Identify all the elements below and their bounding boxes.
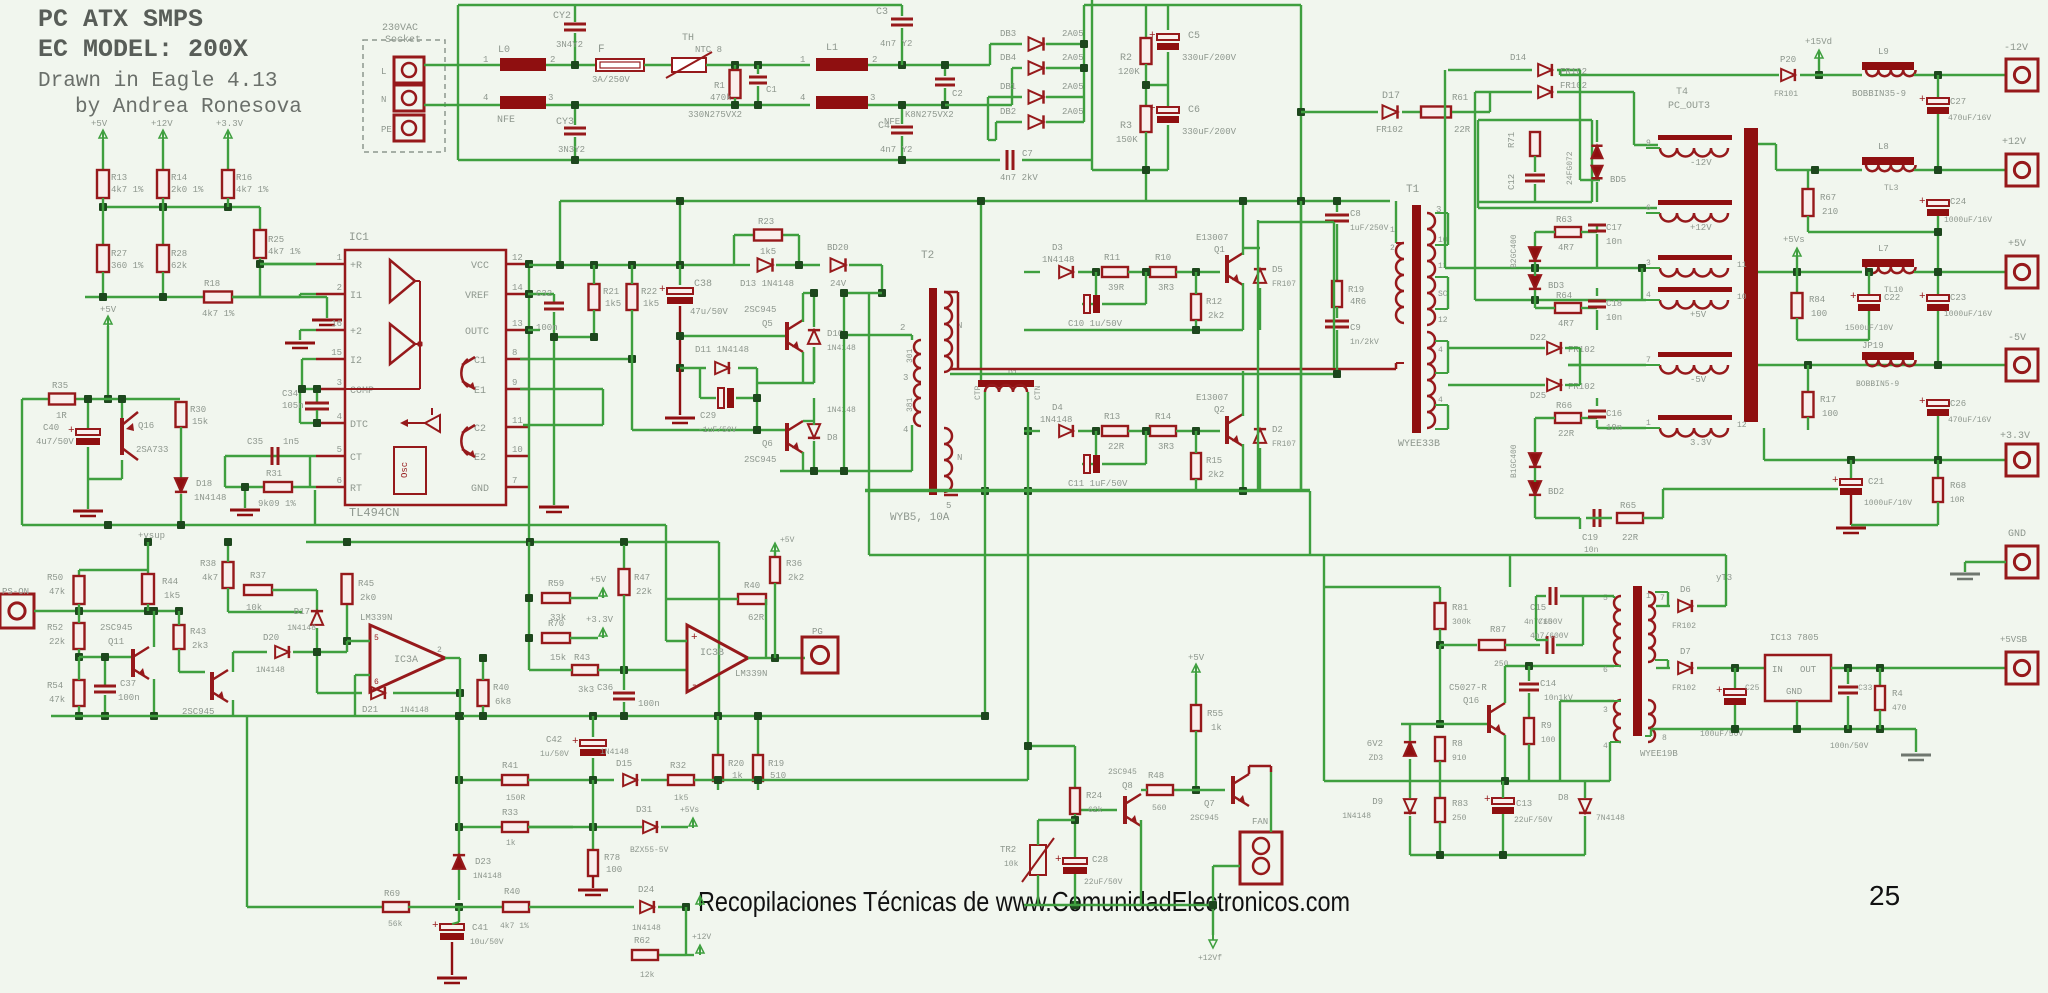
svg-text:R66: R66 bbox=[1556, 401, 1572, 411]
svg-text:Osc: Osc bbox=[400, 462, 410, 478]
svg-text:+R: +R bbox=[350, 261, 362, 272]
svg-text:FR107: FR107 bbox=[1272, 440, 1296, 449]
svg-text:CY2: CY2 bbox=[553, 11, 571, 22]
svg-text:C1: C1 bbox=[474, 356, 486, 367]
svg-text:10: 10 bbox=[1438, 236, 1448, 245]
svg-text:1N4148: 1N4148 bbox=[256, 666, 285, 675]
svg-text:N: N bbox=[381, 95, 386, 105]
svg-text:C13: C13 bbox=[1516, 799, 1532, 809]
svg-text:C15: C15 bbox=[1530, 603, 1546, 613]
svg-text:1N4148: 1N4148 bbox=[600, 748, 629, 757]
svg-text:D14: D14 bbox=[1510, 53, 1526, 63]
svg-text:Q16: Q16 bbox=[1463, 696, 1479, 706]
svg-text:FAN: FAN bbox=[1252, 817, 1268, 827]
svg-text:C33: C33 bbox=[1858, 684, 1873, 693]
svg-text:R63: R63 bbox=[1556, 215, 1572, 225]
svg-text:2A05: 2A05 bbox=[1062, 107, 1084, 117]
svg-text:11: 11 bbox=[1438, 262, 1448, 271]
svg-text:R23: R23 bbox=[758, 217, 774, 227]
svg-text:4n7 Y2: 4n7 Y2 bbox=[880, 39, 912, 49]
svg-text:4: 4 bbox=[337, 412, 342, 422]
svg-text:13: 13 bbox=[512, 319, 523, 329]
svg-text:-5V: -5V bbox=[2008, 333, 2026, 344]
svg-text:C17: C17 bbox=[1606, 223, 1622, 233]
svg-text:8: 8 bbox=[512, 348, 517, 358]
svg-text:COMP: COMP bbox=[350, 386, 374, 397]
svg-text:NFE: NFE bbox=[497, 115, 515, 126]
svg-text:+12V: +12V bbox=[151, 119, 173, 129]
svg-text:R27: R27 bbox=[111, 249, 127, 259]
svg-text:6k8: 6k8 bbox=[495, 697, 511, 707]
svg-text:330N275VX2: 330N275VX2 bbox=[688, 110, 742, 120]
svg-text:+5V: +5V bbox=[91, 119, 108, 129]
svg-text:22R: 22R bbox=[1558, 429, 1575, 439]
svg-text:Q5: Q5 bbox=[762, 319, 773, 329]
svg-text:C15: C15 bbox=[1538, 618, 1553, 627]
svg-text:100n: 100n bbox=[536, 323, 558, 333]
svg-text:470: 470 bbox=[1892, 704, 1907, 713]
svg-text:JP19: JP19 bbox=[1862, 341, 1884, 351]
svg-text:+: + bbox=[1484, 794, 1491, 806]
svg-text:24FG072: 24FG072 bbox=[1566, 151, 1575, 185]
svg-text:R19: R19 bbox=[1348, 285, 1364, 295]
svg-text:+3.3V: +3.3V bbox=[2000, 431, 2030, 442]
svg-text:L9: L9 bbox=[1878, 47, 1889, 57]
svg-text:2SC945: 2SC945 bbox=[100, 623, 132, 633]
svg-text:2SC945: 2SC945 bbox=[1108, 768, 1137, 777]
svg-text:R10: R10 bbox=[1155, 253, 1171, 263]
svg-text:7: 7 bbox=[512, 476, 517, 486]
svg-text:+: + bbox=[691, 632, 698, 644]
svg-text:3N4Y2: 3N4Y2 bbox=[556, 40, 583, 50]
svg-text:4: 4 bbox=[483, 93, 488, 103]
svg-text:12: 12 bbox=[512, 253, 523, 263]
svg-text:C36: C36 bbox=[597, 683, 613, 693]
svg-text:R47: R47 bbox=[634, 573, 650, 583]
svg-text:BD3: BD3 bbox=[1548, 281, 1564, 291]
svg-text:C5: C5 bbox=[1188, 31, 1200, 42]
svg-text:R14: R14 bbox=[1155, 412, 1171, 422]
svg-text:CTP: CTP bbox=[974, 385, 983, 400]
svg-text:+: + bbox=[659, 284, 666, 296]
svg-text:C12: C12 bbox=[1507, 174, 1517, 190]
svg-text:47k: 47k bbox=[49, 695, 65, 705]
svg-text:4: 4 bbox=[800, 93, 805, 103]
svg-text:22k: 22k bbox=[49, 637, 65, 647]
svg-text:+3.3V: +3.3V bbox=[216, 119, 244, 129]
svg-text:3: 3 bbox=[1646, 259, 1651, 268]
svg-text:R35: R35 bbox=[52, 381, 68, 391]
svg-text:OUT: OUT bbox=[1800, 665, 1817, 675]
svg-text:1k5: 1k5 bbox=[164, 591, 180, 601]
svg-text:+5Vs: +5Vs bbox=[680, 806, 699, 815]
svg-text:L7: L7 bbox=[1878, 244, 1889, 254]
svg-text:381: 381 bbox=[906, 397, 915, 412]
svg-text:N: N bbox=[957, 453, 962, 463]
svg-text:C10 1u/50V: C10 1u/50V bbox=[1068, 319, 1123, 329]
svg-text:4n7 2kV: 4n7 2kV bbox=[1000, 173, 1038, 183]
svg-text:100: 100 bbox=[1541, 736, 1556, 745]
svg-text:L8: L8 bbox=[1878, 142, 1889, 152]
svg-text:5: 5 bbox=[337, 445, 342, 455]
svg-text:R16: R16 bbox=[236, 173, 252, 183]
svg-text:I1: I1 bbox=[350, 291, 362, 302]
svg-text:330uF/200V: 330uF/200V bbox=[1182, 127, 1237, 137]
svg-text:4u7/50V: 4u7/50V bbox=[36, 437, 74, 447]
svg-text:1N4148: 1N4148 bbox=[473, 872, 502, 881]
svg-text:CY3: CY3 bbox=[556, 117, 574, 128]
svg-text:R59: R59 bbox=[548, 579, 564, 589]
svg-text:12: 12 bbox=[1737, 421, 1747, 430]
svg-text:R18: R18 bbox=[204, 279, 220, 289]
svg-text:6: 6 bbox=[337, 476, 342, 486]
svg-text:R22: R22 bbox=[641, 287, 657, 297]
svg-text:1R: 1R bbox=[56, 411, 67, 421]
svg-text:FR102: FR102 bbox=[1568, 345, 1595, 355]
svg-text:3: 3 bbox=[548, 93, 553, 103]
svg-text:C19: C19 bbox=[1582, 533, 1598, 543]
svg-text:FR101: FR101 bbox=[1774, 90, 1798, 99]
svg-text:62k: 62k bbox=[171, 261, 187, 271]
svg-text:C3: C3 bbox=[876, 7, 888, 18]
svg-text:+5V: +5V bbox=[780, 536, 795, 545]
svg-text:L: L bbox=[381, 67, 386, 77]
svg-text:15: 15 bbox=[331, 348, 342, 358]
svg-text:R44: R44 bbox=[162, 577, 178, 587]
svg-text:R78: R78 bbox=[604, 853, 620, 863]
svg-text:+5V: +5V bbox=[590, 575, 607, 585]
svg-text:DB3: DB3 bbox=[1000, 29, 1016, 39]
svg-text:2: 2 bbox=[437, 646, 442, 655]
svg-text:4k7 1%: 4k7 1% bbox=[268, 247, 301, 257]
svg-text:2k2: 2k2 bbox=[788, 573, 804, 583]
svg-text:4: 4 bbox=[1438, 396, 1443, 405]
svg-text:4: 4 bbox=[903, 425, 908, 435]
svg-text:5: 5 bbox=[946, 501, 951, 511]
svg-text:1: 1 bbox=[800, 55, 805, 65]
svg-text:C8: C8 bbox=[1350, 209, 1361, 219]
svg-text:R40: R40 bbox=[744, 581, 760, 591]
svg-text:+: + bbox=[68, 425, 75, 437]
svg-text:10n: 10n bbox=[1606, 237, 1622, 247]
svg-text:100: 100 bbox=[1822, 409, 1838, 419]
svg-text:210: 210 bbox=[1822, 207, 1838, 217]
svg-text:R14: R14 bbox=[171, 173, 187, 183]
svg-text:C35: C35 bbox=[247, 437, 263, 447]
svg-text:3: 3 bbox=[1603, 706, 1608, 715]
svg-text:4k7 1%: 4k7 1% bbox=[111, 185, 144, 195]
svg-text:+: + bbox=[572, 736, 579, 748]
svg-text:1500uF/10V: 1500uF/10V bbox=[1845, 324, 1893, 333]
svg-text:R12: R12 bbox=[1206, 297, 1222, 307]
svg-text:+: + bbox=[1055, 854, 1062, 866]
svg-text:100n: 100n bbox=[638, 699, 660, 709]
svg-text:-12V: -12V bbox=[1690, 158, 1712, 168]
svg-text:Q16: Q16 bbox=[138, 421, 154, 431]
svg-text:8: 8 bbox=[1662, 734, 1667, 743]
svg-text:WYEE19B: WYEE19B bbox=[1640, 749, 1678, 759]
svg-text:LM339N: LM339N bbox=[360, 613, 392, 623]
svg-text:16: 16 bbox=[331, 319, 342, 329]
svg-text:R19: R19 bbox=[768, 759, 784, 769]
svg-text:2k3: 2k3 bbox=[192, 641, 208, 651]
svg-text:CTN: CTN bbox=[1034, 385, 1043, 400]
svg-text:P20: P20 bbox=[1780, 55, 1796, 65]
svg-text:150K: 150K bbox=[1116, 135, 1138, 145]
svg-text:FR102: FR102 bbox=[1672, 622, 1696, 631]
svg-text:R28: R28 bbox=[171, 249, 187, 259]
svg-text:10: 10 bbox=[1737, 293, 1747, 302]
svg-text:2A05: 2A05 bbox=[1062, 82, 1084, 92]
svg-text:+12V: +12V bbox=[692, 933, 711, 942]
svg-text:+5V: +5V bbox=[100, 305, 117, 315]
svg-text:R30: R30 bbox=[190, 405, 206, 415]
svg-text:22R: 22R bbox=[1622, 533, 1639, 543]
svg-text:2k2: 2k2 bbox=[1208, 470, 1224, 480]
svg-text:1N4148: 1N4148 bbox=[1040, 415, 1072, 425]
svg-text:C32: C32 bbox=[536, 289, 552, 299]
svg-text:4n7 Y2: 4n7 Y2 bbox=[880, 145, 912, 155]
svg-text:R54: R54 bbox=[47, 681, 63, 691]
svg-text:4k7: 4k7 bbox=[202, 573, 218, 583]
svg-text:9: 9 bbox=[1646, 139, 1651, 148]
svg-text:DB1: DB1 bbox=[1000, 82, 1016, 92]
svg-text:D18: D18 bbox=[196, 479, 212, 489]
svg-text:C25: C25 bbox=[1745, 684, 1760, 693]
svg-text:3: 3 bbox=[903, 373, 908, 383]
svg-text:R15: R15 bbox=[1206, 456, 1222, 466]
svg-text:L1: L1 bbox=[826, 43, 838, 54]
svg-text:C2: C2 bbox=[952, 89, 963, 99]
svg-text:C41: C41 bbox=[472, 923, 488, 933]
svg-text:+3.3V: +3.3V bbox=[586, 615, 614, 625]
svg-text:R9: R9 bbox=[1541, 721, 1552, 731]
svg-text:100n/50V: 100n/50V bbox=[1830, 742, 1869, 751]
svg-text:C1: C1 bbox=[766, 85, 777, 95]
svg-text:2: 2 bbox=[872, 55, 877, 65]
svg-text:6: 6 bbox=[1603, 666, 1608, 675]
svg-text:10n: 10n bbox=[1584, 546, 1599, 555]
svg-text:TL3: TL3 bbox=[1884, 184, 1899, 193]
svg-text:E13007: E13007 bbox=[1196, 393, 1228, 403]
svg-text:24V: 24V bbox=[830, 279, 847, 289]
svg-text:22uF/50V: 22uF/50V bbox=[1084, 878, 1123, 887]
svg-text:62R: 62R bbox=[748, 613, 765, 623]
svg-text:R69: R69 bbox=[384, 889, 400, 899]
svg-text:LM339N: LM339N bbox=[735, 669, 767, 679]
svg-text:PC_OUT3: PC_OUT3 bbox=[1668, 101, 1710, 112]
svg-text:+: + bbox=[1149, 103, 1156, 115]
svg-text:2k2: 2k2 bbox=[1208, 311, 1224, 321]
svg-text:910: 910 bbox=[1452, 754, 1467, 763]
svg-text:1N4148: 1N4148 bbox=[287, 624, 316, 633]
svg-text:4R7: 4R7 bbox=[1558, 243, 1574, 253]
svg-text:14: 14 bbox=[512, 283, 523, 293]
svg-text:T1: T1 bbox=[1406, 184, 1420, 196]
svg-text:-: - bbox=[691, 680, 698, 692]
svg-text:yT3: yT3 bbox=[1716, 573, 1732, 583]
svg-text:C27: C27 bbox=[1950, 97, 1966, 107]
svg-text:10n: 10n bbox=[1606, 313, 1622, 323]
svg-text:2: 2 bbox=[900, 323, 905, 333]
svg-text:R70: R70 bbox=[548, 619, 564, 629]
svg-text:R38: R38 bbox=[200, 559, 216, 569]
svg-text:6V2: 6V2 bbox=[1367, 739, 1383, 749]
svg-text:D17: D17 bbox=[294, 607, 310, 617]
svg-text:1: 1 bbox=[1646, 419, 1651, 428]
svg-text:1k5: 1k5 bbox=[760, 247, 776, 257]
svg-text:TH: TH bbox=[682, 33, 694, 44]
svg-text:I2: I2 bbox=[350, 356, 362, 367]
svg-text:R25: R25 bbox=[268, 235, 284, 245]
svg-text:C2: C2 bbox=[474, 424, 486, 435]
svg-text:R50: R50 bbox=[47, 573, 63, 583]
svg-text:11: 11 bbox=[512, 416, 523, 426]
svg-text:IC1: IC1 bbox=[349, 232, 369, 244]
svg-text:2k0: 2k0 bbox=[360, 593, 376, 603]
svg-text:1k5: 1k5 bbox=[674, 794, 689, 803]
svg-text:C18: C18 bbox=[1606, 299, 1622, 309]
svg-text:D6: D6 bbox=[1680, 585, 1691, 595]
svg-text:470uF/16V: 470uF/16V bbox=[1948, 114, 1991, 123]
svg-text:25: 25 bbox=[1869, 880, 1900, 911]
svg-text:560: 560 bbox=[1152, 804, 1167, 813]
svg-text:-1uF/50V: -1uF/50V bbox=[698, 426, 737, 435]
svg-text:1k5: 1k5 bbox=[643, 299, 659, 309]
svg-text:D24: D24 bbox=[638, 885, 654, 895]
svg-text:+: + bbox=[432, 920, 439, 932]
svg-text:4: 4 bbox=[1438, 346, 1443, 355]
svg-text:PC ATX SMPS: PC ATX SMPS bbox=[38, 5, 203, 34]
svg-text:10k: 10k bbox=[1004, 860, 1019, 869]
svg-text:B1GC400: B1GC400 bbox=[1510, 444, 1519, 478]
svg-text:3R3: 3R3 bbox=[1158, 442, 1174, 452]
svg-text:T2: T2 bbox=[921, 250, 934, 262]
svg-text:R2: R2 bbox=[1120, 53, 1132, 64]
svg-text:6: 6 bbox=[374, 678, 379, 687]
svg-text:E1: E1 bbox=[474, 386, 486, 397]
svg-text:NTC 8: NTC 8 bbox=[695, 45, 722, 55]
svg-text:100n: 100n bbox=[118, 693, 140, 703]
svg-text:FR102: FR102 bbox=[1568, 382, 1595, 392]
svg-text:4R7: 4R7 bbox=[1558, 319, 1574, 329]
svg-text:+: + bbox=[1919, 396, 1926, 408]
svg-text:C7: C7 bbox=[1022, 149, 1033, 159]
svg-text:R8: R8 bbox=[1452, 739, 1463, 749]
svg-text:D17: D17 bbox=[1382, 91, 1400, 102]
svg-text:BOBBIN5-9: BOBBIN5-9 bbox=[1856, 380, 1899, 389]
svg-text:C11 1uF/50V: C11 1uF/50V bbox=[1068, 479, 1128, 489]
svg-text:R36: R36 bbox=[786, 559, 802, 569]
svg-text:R64: R64 bbox=[1556, 291, 1572, 301]
svg-text:R40: R40 bbox=[504, 887, 520, 897]
svg-text:Q2: Q2 bbox=[1214, 405, 1225, 415]
svg-text:R20: R20 bbox=[728, 759, 744, 769]
svg-text:Socket: Socket bbox=[385, 34, 421, 46]
svg-text:+: + bbox=[1919, 94, 1926, 106]
svg-text:1: 1 bbox=[483, 55, 488, 65]
svg-text:IC13 7805: IC13 7805 bbox=[1770, 633, 1819, 643]
svg-text:2: 2 bbox=[337, 283, 342, 293]
svg-text:R83: R83 bbox=[1452, 799, 1468, 809]
svg-text:TR2: TR2 bbox=[1000, 845, 1016, 855]
svg-text:BD2: BD2 bbox=[1548, 487, 1564, 497]
svg-text:2A05: 2A05 bbox=[1062, 29, 1084, 39]
svg-text:R62: R62 bbox=[634, 936, 650, 946]
svg-text:100: 100 bbox=[606, 865, 622, 875]
svg-text:4: 4 bbox=[1603, 742, 1608, 751]
svg-text:10n: 10n bbox=[1606, 423, 1622, 433]
svg-text:D4: D4 bbox=[1052, 403, 1063, 413]
svg-text:+: + bbox=[1919, 291, 1926, 303]
svg-text:39R: 39R bbox=[1108, 283, 1125, 293]
svg-text:22R: 22R bbox=[1454, 125, 1471, 135]
svg-text:1000uF/10V: 1000uF/10V bbox=[1864, 499, 1912, 508]
svg-text:470k: 470k bbox=[710, 93, 732, 103]
svg-text:BD20: BD20 bbox=[827, 243, 849, 253]
svg-text:1k5: 1k5 bbox=[605, 299, 621, 309]
svg-text:GND: GND bbox=[2008, 529, 2026, 540]
svg-text:47k: 47k bbox=[49, 587, 65, 597]
svg-text:C14: C14 bbox=[1540, 679, 1556, 689]
svg-text:+5Vs: +5Vs bbox=[1783, 235, 1805, 245]
svg-text:5: 5 bbox=[374, 634, 379, 643]
svg-text:Q11: Q11 bbox=[108, 637, 124, 647]
svg-text:IN: IN bbox=[1772, 665, 1783, 675]
svg-text:D2: D2 bbox=[1272, 425, 1283, 435]
svg-text:R43: R43 bbox=[190, 627, 206, 637]
svg-text:+12Vf: +12Vf bbox=[1198, 954, 1222, 963]
svg-text:GND: GND bbox=[471, 484, 489, 495]
svg-text:+: + bbox=[1919, 196, 1926, 208]
svg-text:D8: D8 bbox=[827, 433, 838, 443]
svg-text:+5VSB: +5VSB bbox=[2000, 635, 2028, 645]
svg-text:300k: 300k bbox=[1452, 618, 1471, 627]
svg-text:R24: R24 bbox=[1086, 791, 1102, 801]
svg-text:2SC945: 2SC945 bbox=[744, 455, 776, 465]
svg-text:Q8: Q8 bbox=[1122, 781, 1133, 791]
svg-text:R21: R21 bbox=[603, 287, 619, 297]
svg-text:47u/50V: 47u/50V bbox=[690, 307, 728, 317]
svg-text:L0: L0 bbox=[498, 45, 510, 56]
svg-text:2: 2 bbox=[550, 55, 555, 65]
svg-text:1N4148: 1N4148 bbox=[827, 406, 856, 415]
svg-text:56k: 56k bbox=[388, 920, 403, 929]
svg-text:4k7 1%: 4k7 1% bbox=[202, 309, 235, 319]
svg-text:+2: +2 bbox=[350, 327, 362, 338]
svg-text:1N4148: 1N4148 bbox=[1342, 812, 1371, 821]
svg-text:1k: 1k bbox=[506, 839, 516, 848]
svg-text:BZX55-5V: BZX55-5V bbox=[630, 846, 669, 855]
svg-text:1N4148: 1N4148 bbox=[827, 344, 856, 353]
svg-text:1000uF/16V: 1000uF/16V bbox=[1944, 310, 1992, 319]
svg-text:6: 6 bbox=[1646, 204, 1651, 213]
svg-text:2k0 1%: 2k0 1% bbox=[171, 185, 204, 195]
svg-text:+5V: +5V bbox=[1690, 310, 1707, 320]
svg-text:OUTC: OUTC bbox=[465, 327, 489, 338]
svg-text:C42: C42 bbox=[546, 735, 562, 745]
svg-text:D22: D22 bbox=[1530, 333, 1546, 343]
svg-text:SC: SC bbox=[1438, 290, 1448, 299]
svg-text:9: 9 bbox=[512, 378, 517, 388]
svg-text:1000uF/16V: 1000uF/16V bbox=[1944, 216, 1992, 225]
svg-text:E2: E2 bbox=[474, 453, 486, 464]
svg-text:R41: R41 bbox=[502, 761, 518, 771]
svg-text:1n5: 1n5 bbox=[283, 437, 299, 447]
svg-text:C24: C24 bbox=[1950, 197, 1966, 207]
svg-text:360 1%: 360 1% bbox=[111, 261, 144, 271]
svg-text:10k: 10k bbox=[246, 603, 262, 613]
